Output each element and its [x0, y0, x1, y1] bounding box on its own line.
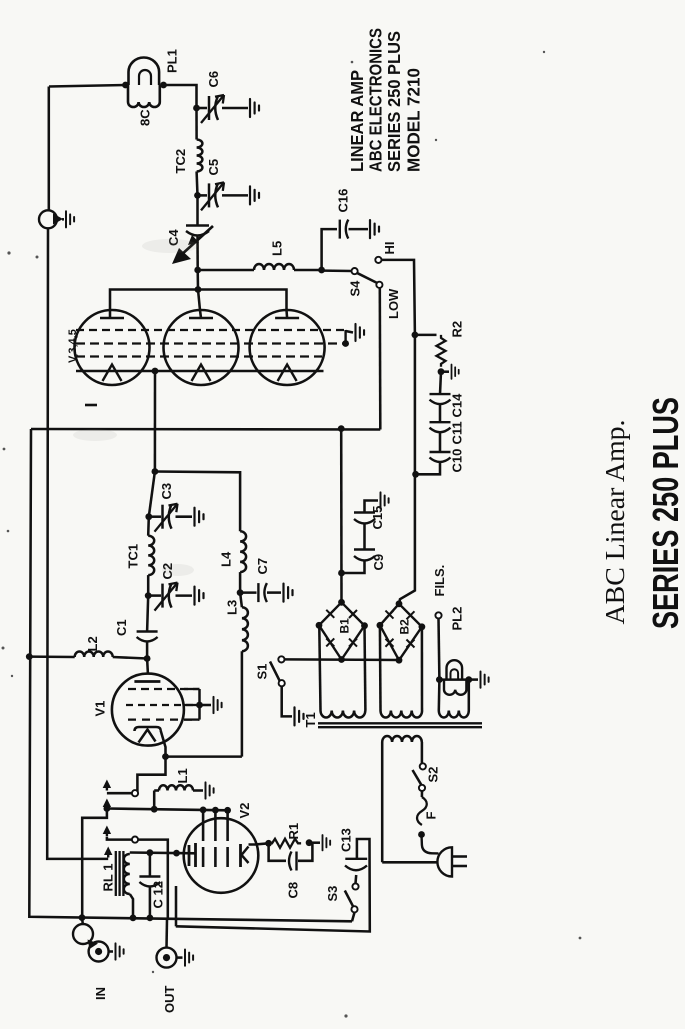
svg-text:ABC ELECTRONICS: ABC ELECTRONICS	[366, 28, 386, 172]
svg-text:C7: C7	[255, 558, 270, 575]
svg-text:LOW: LOW	[386, 288, 401, 319]
svg-text:IN: IN	[93, 987, 108, 1000]
svg-text:C9: C9	[371, 554, 386, 571]
svg-text:C11: C11	[450, 421, 465, 444]
svg-text:PL1: PL1	[165, 49, 180, 73]
svg-text:TC2: TC2	[173, 149, 188, 174]
svg-text:L4: L4	[219, 551, 234, 567]
svg-text:L2: L2	[85, 636, 100, 651]
svg-text:8C: 8C	[138, 109, 153, 126]
svg-text:C6: C6	[206, 71, 221, 88]
svg-text:SERIES 250 PLUS: SERIES 250 PLUS	[384, 31, 404, 172]
svg-text:FILS.: FILS.	[432, 565, 447, 597]
svg-text:C16: C16	[336, 189, 351, 213]
svg-text:L5: L5	[270, 241, 285, 256]
svg-text:L3: L3	[225, 600, 240, 615]
svg-text:PL2: PL2	[450, 607, 465, 631]
svg-text:R1: R1	[286, 823, 301, 840]
svg-text:L1: L1	[175, 768, 190, 783]
svg-text:C 12: C 12	[151, 881, 166, 908]
svg-text:SERIES 250 PLUS: SERIES 250 PLUS	[645, 397, 685, 629]
svg-text:TC1: TC1	[126, 544, 141, 569]
svg-text:C14: C14	[450, 393, 465, 418]
svg-text:S3: S3	[325, 886, 340, 902]
svg-text:HI: HI	[382, 242, 397, 255]
svg-text:V,3,4,5: V,3,4,5	[67, 329, 79, 363]
svg-text:C15: C15	[370, 506, 385, 530]
svg-text:C13: C13	[339, 828, 354, 852]
svg-text:S4: S4	[348, 280, 363, 297]
svg-text:V1: V1	[93, 701, 108, 717]
svg-text:C1: C1	[114, 619, 129, 636]
svg-text:T1: T1	[303, 712, 318, 727]
svg-text:OUT: OUT	[162, 986, 177, 1014]
svg-text:S1: S1	[255, 664, 270, 680]
svg-text:S2: S2	[426, 767, 441, 783]
svg-text:C5: C5	[206, 159, 221, 176]
svg-text:LINEAR AMP: LINEAR AMP	[347, 70, 367, 172]
svg-text:C8: C8	[286, 882, 301, 899]
svg-text:ABC Linear Amp.: ABC Linear Amp.	[600, 420, 630, 625]
svg-text:C10: C10	[450, 449, 465, 473]
svg-text:B2: B2	[398, 619, 412, 635]
svg-text:R2: R2	[450, 321, 465, 338]
svg-text:V2: V2	[237, 803, 252, 819]
svg-text:MODEL 7210: MODEL 7210	[404, 68, 424, 172]
svg-text:F: F	[424, 812, 439, 820]
svg-text:RL 1: RL 1	[101, 864, 116, 892]
svg-text:B1: B1	[338, 618, 352, 634]
svg-text:C3: C3	[159, 483, 174, 500]
